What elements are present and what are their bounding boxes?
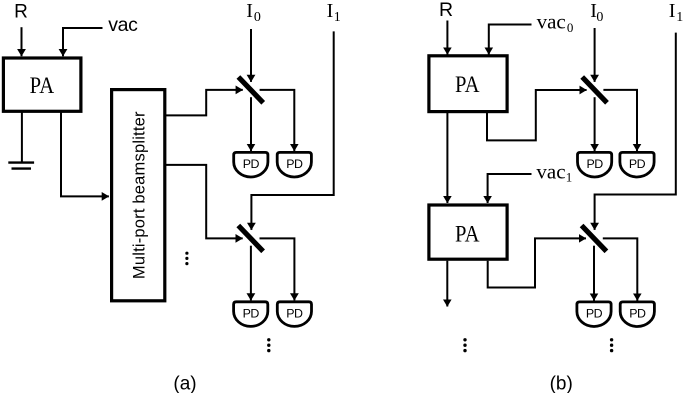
svg-text:PD: PD — [629, 307, 646, 321]
svg-text:PA: PA — [455, 72, 480, 98]
svg-text:PD: PD — [243, 307, 260, 321]
svg-text:vac: vac — [537, 10, 566, 34]
svg-text:(a): (a) — [173, 374, 196, 393]
svg-text:0: 0 — [254, 10, 261, 25]
svg-text:1: 1 — [566, 170, 573, 185]
svg-text:I: I — [246, 0, 253, 22]
svg-text:vac: vac — [108, 14, 138, 36]
svg-text:Multi-port beamsplitter: Multi-port beamsplitter — [131, 111, 149, 279]
svg-text:PD: PD — [586, 307, 603, 321]
svg-text:1: 1 — [676, 10, 683, 25]
svg-text:vac: vac — [536, 159, 565, 183]
svg-text:PA: PA — [455, 222, 480, 248]
svg-text:(b): (b) — [550, 374, 573, 393]
svg-text:PD: PD — [586, 157, 603, 171]
svg-text:I: I — [669, 0, 676, 22]
svg-text:R: R — [439, 0, 453, 21]
svg-text:R: R — [14, 2, 28, 23]
svg-text:PD: PD — [629, 157, 646, 171]
svg-text:PA: PA — [30, 73, 55, 99]
svg-text:PD: PD — [286, 157, 303, 171]
svg-text:PD: PD — [243, 157, 260, 171]
svg-text:I: I — [327, 0, 334, 22]
svg-text:0: 0 — [567, 20, 574, 35]
svg-text:1: 1 — [334, 10, 341, 25]
svg-text:PD: PD — [286, 307, 303, 321]
svg-text:0: 0 — [596, 10, 603, 25]
